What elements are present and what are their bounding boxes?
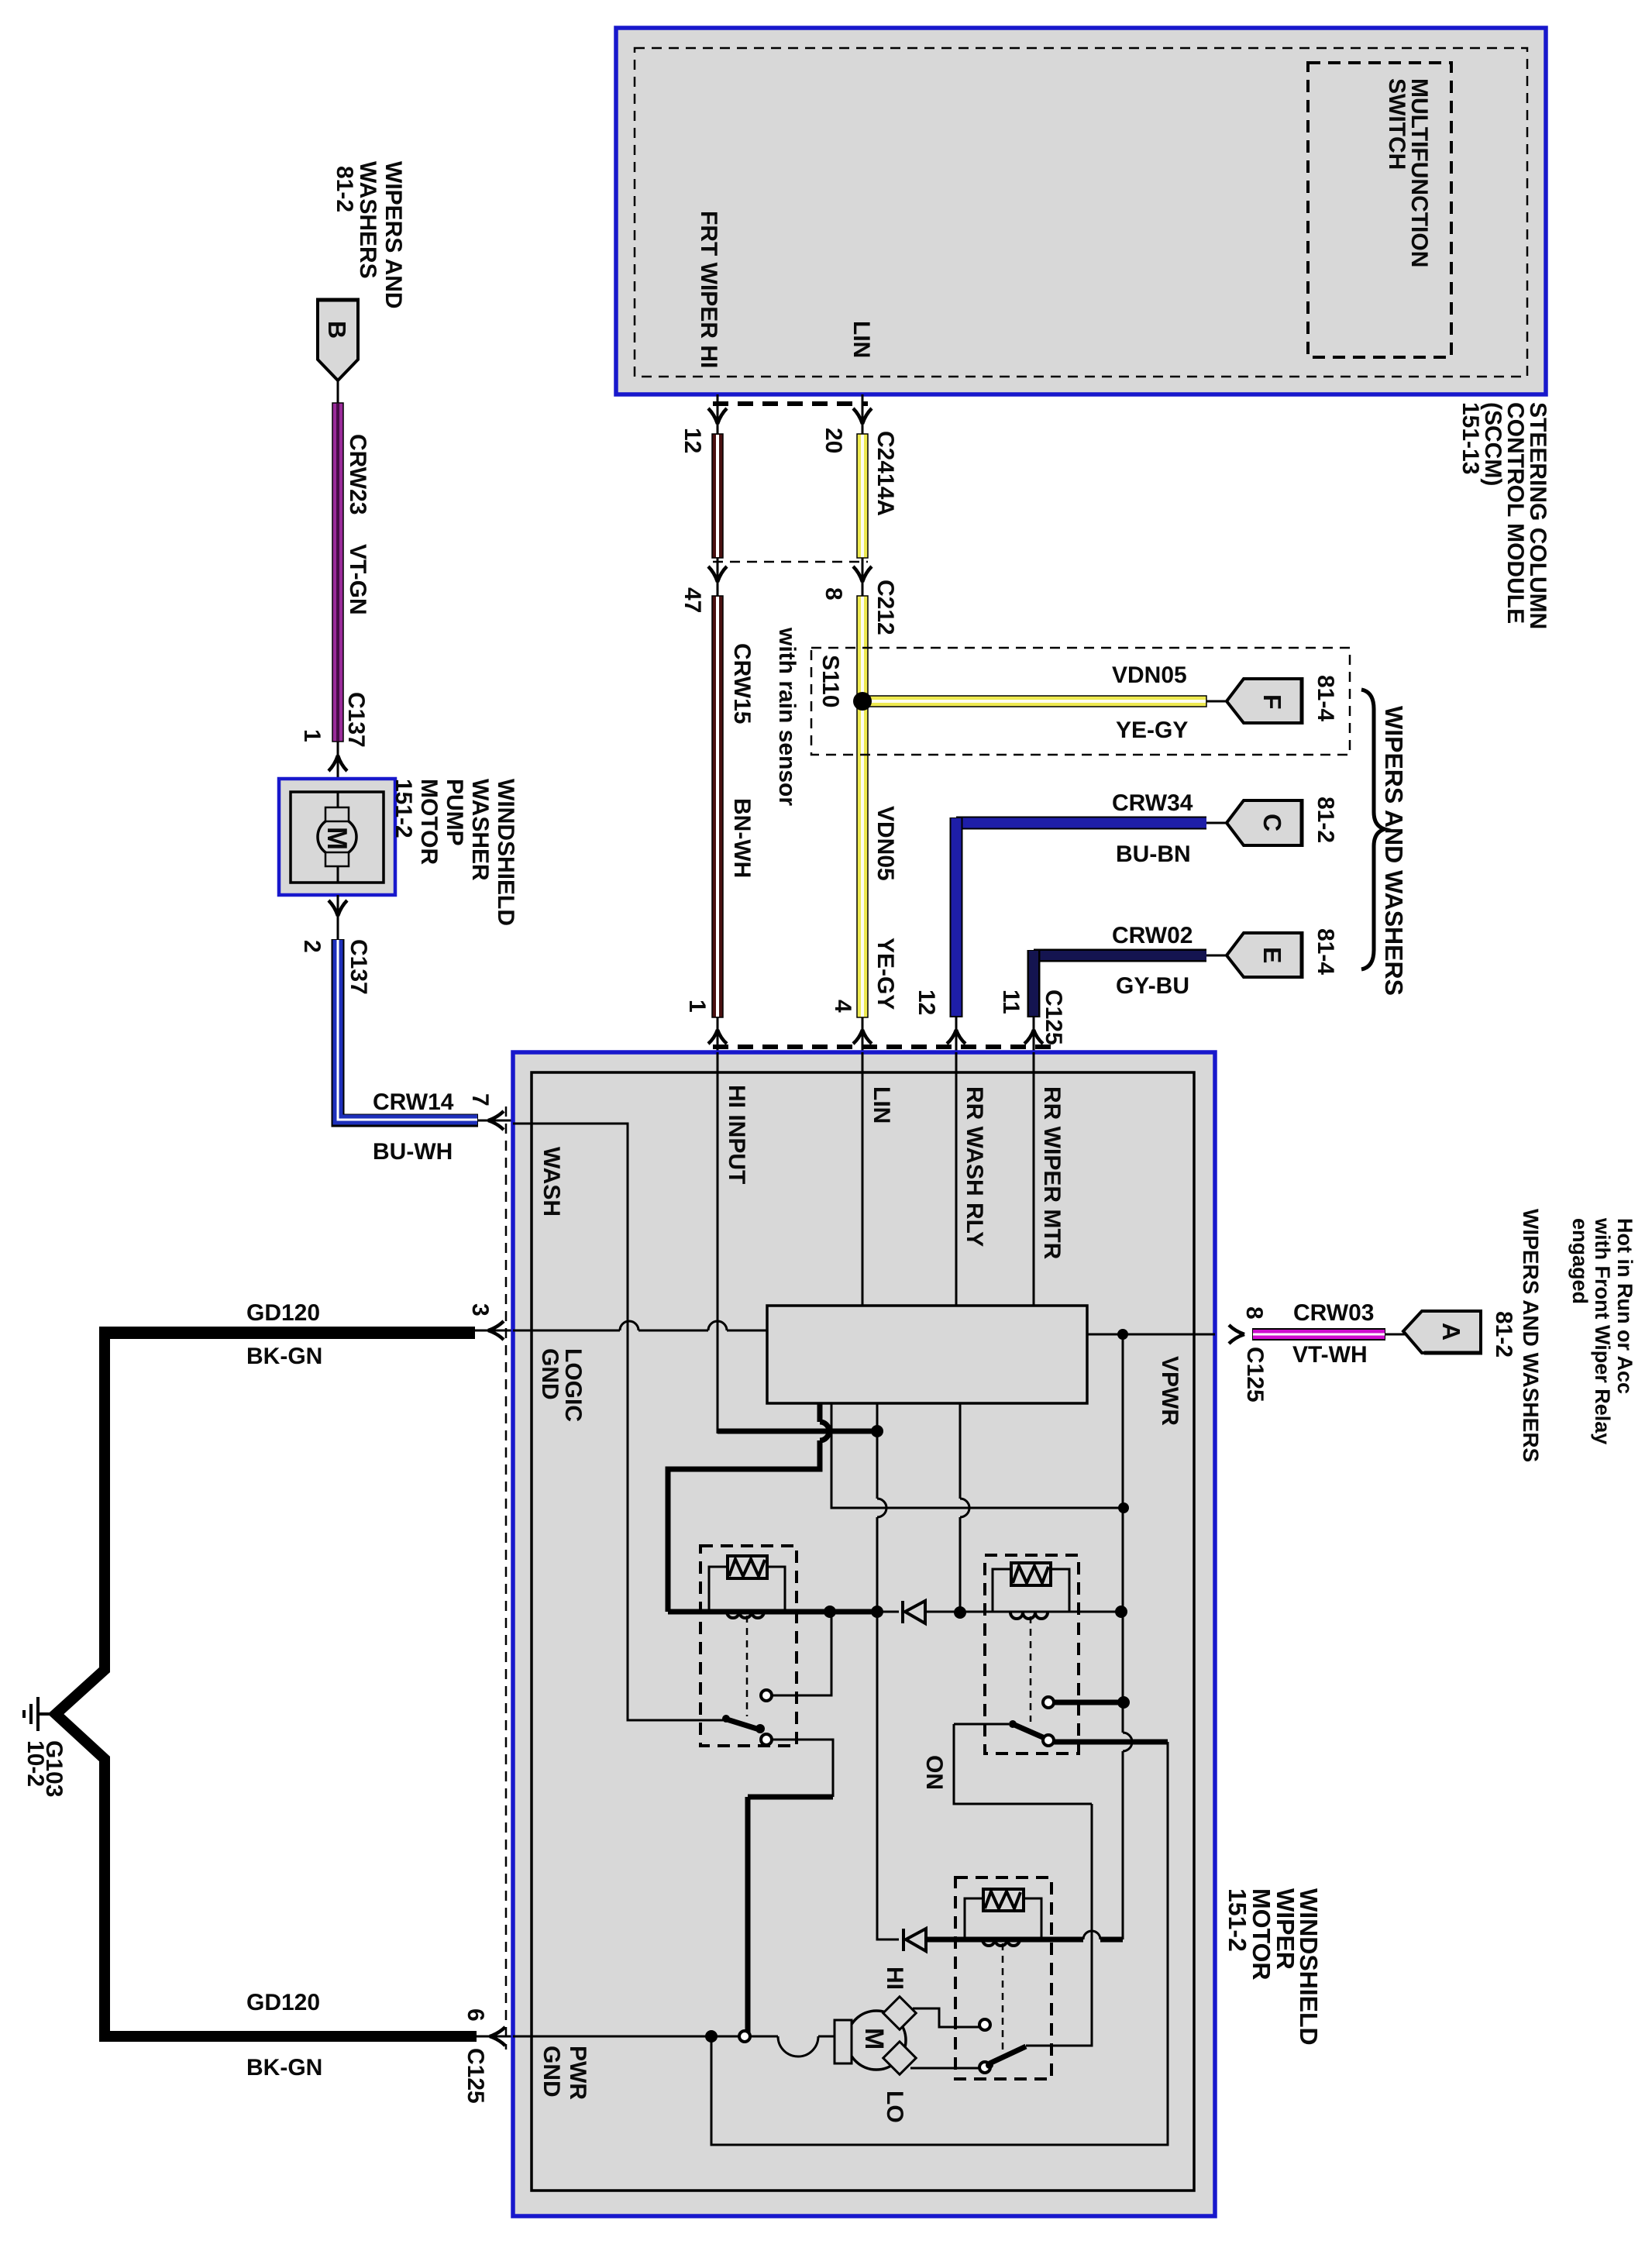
svg-text:4: 4 (830, 1000, 855, 1013)
svg-text:YE-GY: YE-GY (1116, 718, 1188, 743)
svg-text:C: C (1258, 814, 1286, 831)
svg-text:12: 12 (914, 989, 939, 1015)
svg-text:C137: C137 (346, 939, 371, 995)
svg-text:LO: LO (882, 2091, 907, 2123)
svg-text:VPWR: VPWR (1157, 1356, 1182, 1426)
svg-text:Hot in Run or Acc: Hot in Run or Acc (1613, 1218, 1637, 1394)
svg-text:WASH: WASH (539, 1147, 564, 1217)
svg-text:GND: GND (537, 1348, 563, 1400)
svg-text:SWITCH: SWITCH (1384, 78, 1409, 170)
svg-text:81-2: 81-2 (332, 166, 357, 212)
svg-text:FRT WIPER HI: FRT WIPER HI (696, 211, 721, 368)
svg-text:12: 12 (680, 428, 705, 453)
svg-text:GD120: GD120 (246, 1300, 320, 1326)
svg-text:151-2: 151-2 (391, 779, 416, 838)
svg-text:WIPERS AND WASHERS: WIPERS AND WASHERS (1380, 706, 1408, 996)
svg-text:HI: HI (882, 1967, 907, 1990)
svg-text:VDN05: VDN05 (1112, 663, 1187, 688)
svg-text:WIPERS AND: WIPERS AND (380, 161, 406, 309)
svg-text:10-2: 10-2 (22, 1740, 48, 1787)
svg-text:BK-GN: BK-GN (246, 2055, 322, 2081)
svg-text:3: 3 (467, 1303, 493, 1316)
svg-text:M: M (859, 2028, 889, 2050)
svg-text:VT-GN: VT-GN (345, 544, 370, 615)
svg-text:PWR: PWR (565, 2046, 590, 2100)
svg-text:C2414A: C2414A (872, 431, 898, 516)
svg-text:81-2: 81-2 (1313, 797, 1338, 843)
svg-text:1: 1 (299, 729, 325, 742)
svg-text:CRW34: CRW34 (1112, 790, 1193, 816)
svg-text:VT-WH: VT-WH (1292, 1342, 1368, 1368)
svg-text:CRW03: CRW03 (1293, 1300, 1374, 1326)
svg-text:11: 11 (998, 989, 1024, 1014)
svg-text:RR WASH RLY: RR WASH RLY (962, 1086, 987, 1247)
svg-text:WASHERS: WASHERS (355, 161, 380, 279)
svg-text:with rain sensor: with rain sensor (774, 627, 800, 806)
svg-text:LIN: LIN (848, 321, 874, 358)
svg-text:151-2: 151-2 (1224, 1888, 1251, 1952)
svg-text:S110: S110 (817, 655, 843, 707)
svg-text:CRW23: CRW23 (345, 434, 370, 515)
svg-text:47: 47 (680, 587, 705, 613)
svg-text:81-4: 81-4 (1313, 675, 1338, 721)
svg-text:8: 8 (1241, 1306, 1267, 1320)
svg-text:WINDSHIELD: WINDSHIELD (493, 779, 518, 926)
svg-text:81-2: 81-2 (1491, 1311, 1516, 1358)
svg-text:F: F (1258, 694, 1286, 710)
svg-text:20: 20 (821, 428, 846, 453)
svg-text:ON: ON (921, 1755, 947, 1790)
svg-text:E: E (1258, 947, 1286, 963)
svg-text:2: 2 (299, 940, 325, 953)
svg-text:6: 6 (463, 2008, 488, 2022)
svg-text:LOGIC: LOGIC (560, 1348, 586, 1422)
svg-text:M: M (322, 827, 353, 850)
svg-text:CRW14: CRW14 (373, 1089, 454, 1115)
svg-text:7: 7 (467, 1093, 493, 1107)
svg-text:GY-BU: GY-BU (1116, 973, 1189, 999)
svg-text:C125: C125 (1242, 1347, 1268, 1402)
svg-text:with Front Wiper Relay: with Front Wiper Relay (1591, 1217, 1614, 1444)
svg-text:VDN05: VDN05 (872, 806, 898, 881)
svg-text:151-13: 151-13 (1458, 402, 1483, 474)
svg-text:WIPERS AND WASHERS: WIPERS AND WASHERS (1519, 1209, 1543, 1462)
svg-text:LIN: LIN (869, 1086, 894, 1124)
svg-text:CRW02: CRW02 (1112, 923, 1193, 948)
svg-text:BK-GN: BK-GN (246, 1344, 322, 1369)
svg-text:CRW15: CRW15 (729, 643, 755, 724)
svg-text:C125: C125 (463, 2048, 488, 2104)
svg-text:RR WIPER MTR: RR WIPER MTR (1039, 1086, 1065, 1260)
svg-text:C212: C212 (872, 580, 898, 635)
svg-text:BU-WH: BU-WH (373, 1139, 453, 1165)
svg-text:GD120: GD120 (246, 1990, 320, 2015)
svg-text:BN-WH: BN-WH (729, 798, 755, 878)
svg-text:engaged: engaged (1568, 1218, 1592, 1304)
svg-text:GND: GND (539, 2046, 564, 2098)
svg-text:1: 1 (684, 1000, 710, 1013)
svg-text:B: B (323, 321, 351, 339)
svg-text:MOTOR: MOTOR (416, 779, 442, 865)
svg-text:WASHER: WASHER (467, 779, 493, 881)
svg-text:PUMP: PUMP (442, 779, 467, 846)
svg-text:81-4: 81-4 (1313, 928, 1338, 975)
svg-text:C125: C125 (1041, 989, 1066, 1045)
svg-text:C137: C137 (343, 692, 369, 748)
svg-text:A: A (1437, 1323, 1465, 1341)
svg-text:8: 8 (821, 587, 846, 601)
svg-text:HI INPUT: HI INPUT (724, 1085, 749, 1184)
svg-text:YE-GY: YE-GY (872, 938, 898, 1010)
svg-text:BU-BN: BU-BN (1116, 841, 1191, 867)
